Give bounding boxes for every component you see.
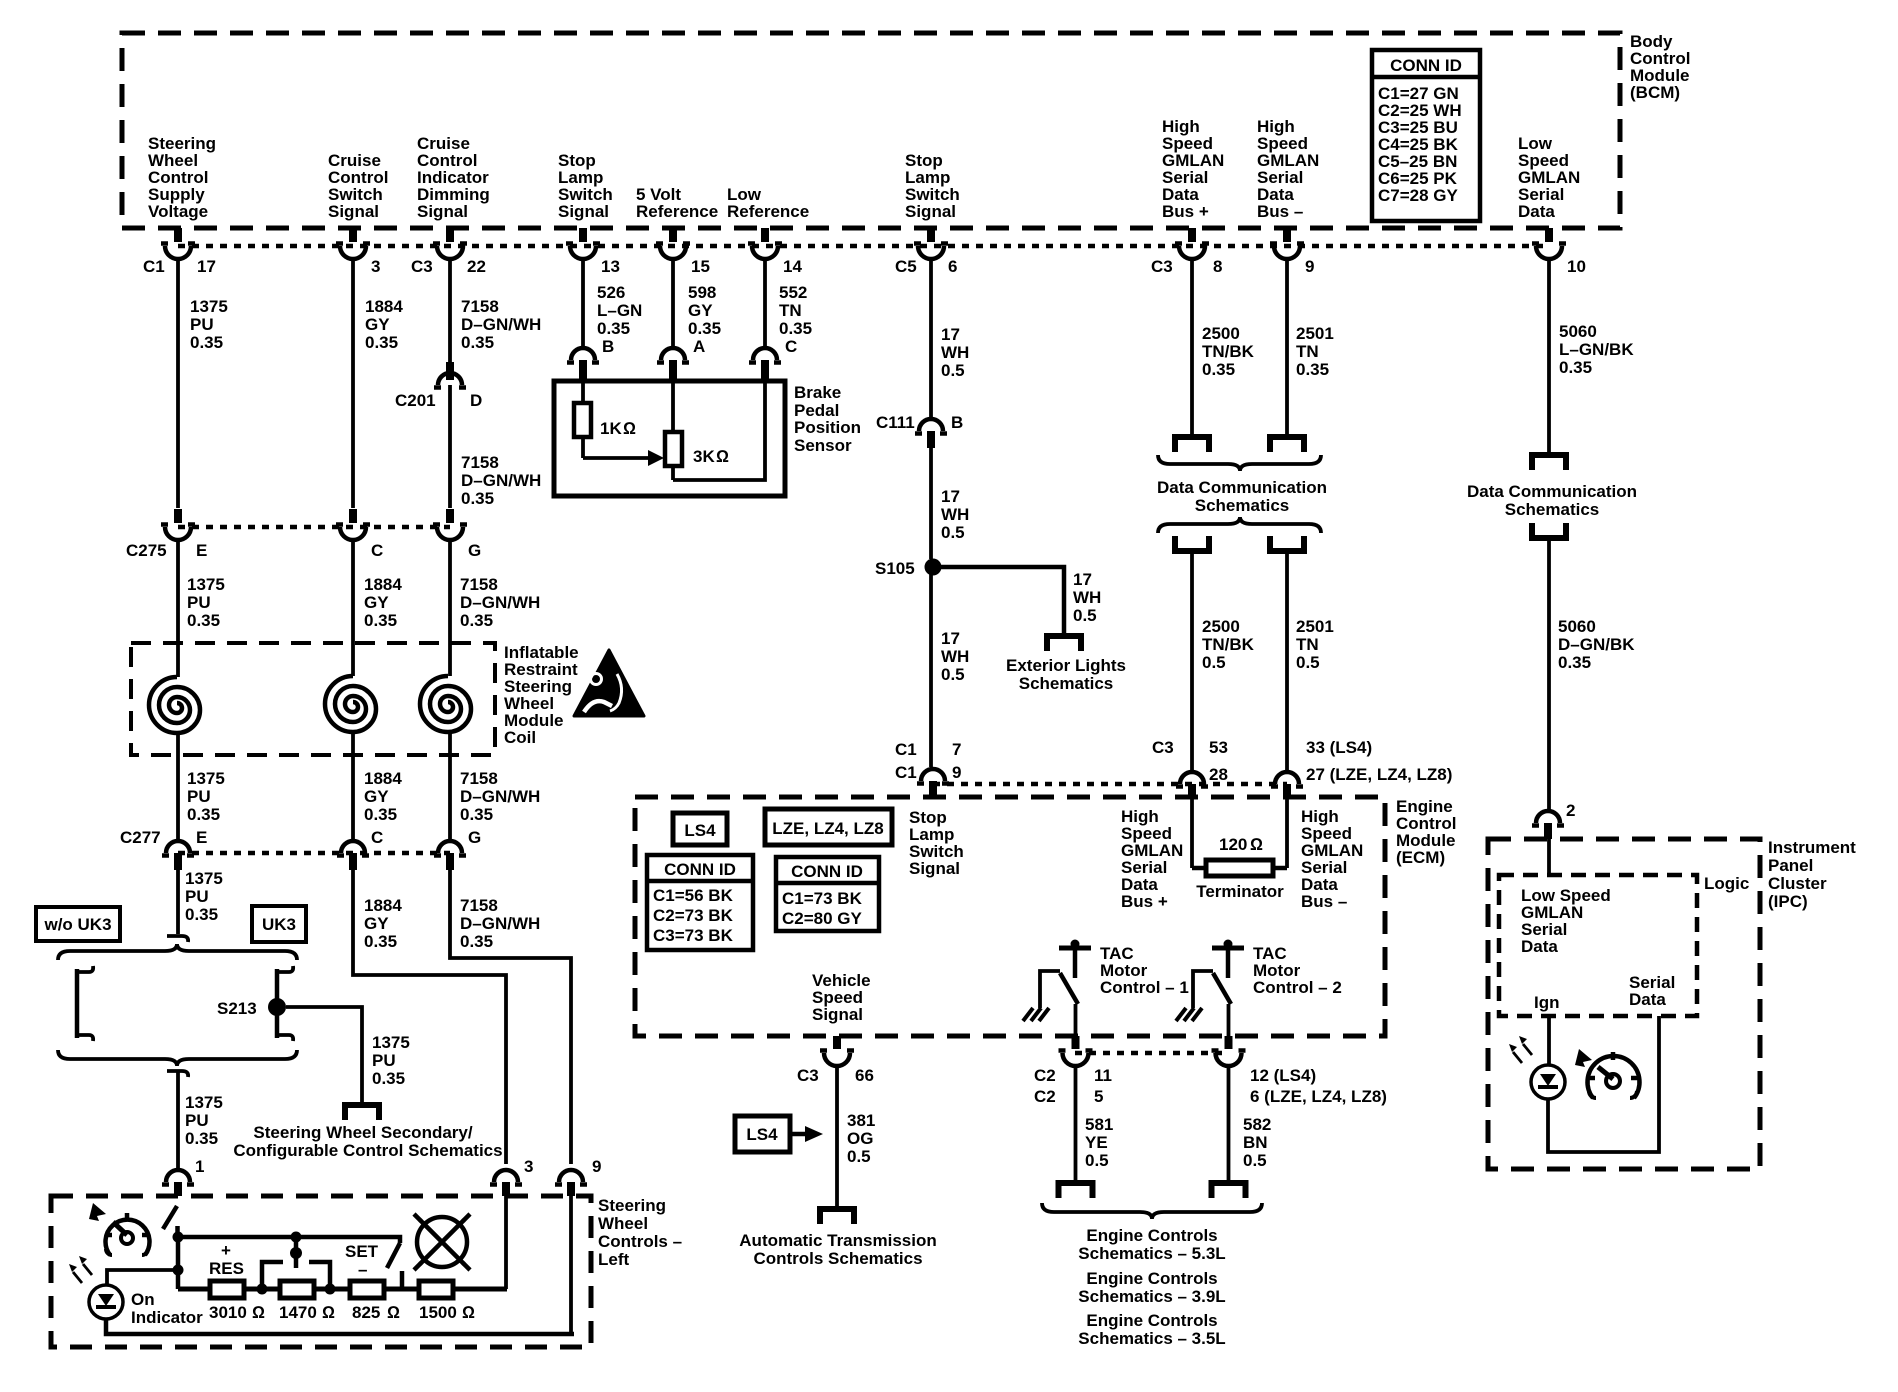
svg-text:Ω: Ω xyxy=(623,419,636,438)
svg-text:Signal: Signal xyxy=(417,202,468,221)
junction dot left of 1470 xyxy=(257,1284,268,1295)
svg-text:7158: 7158 xyxy=(460,896,498,915)
svg-text:D: D xyxy=(470,391,482,410)
C275 pin C xyxy=(336,509,383,560)
svg-text:w/o UK3: w/o UK3 xyxy=(43,915,111,934)
svg-text:9: 9 xyxy=(952,763,961,782)
svg-text:381: 381 xyxy=(847,1111,875,1130)
svg-text:PU: PU xyxy=(190,315,214,334)
connector C201 on wire 7158 xyxy=(395,362,482,410)
svg-text:0.35: 0.35 xyxy=(460,932,493,951)
svg-text:Control – 1: Control – 1 xyxy=(1100,978,1189,997)
svg-text:582: 582 xyxy=(1243,1115,1271,1134)
coil spiral 1 xyxy=(149,677,200,733)
junction dot right of 1470 xyxy=(325,1284,336,1295)
BCM pin label: High Speed GMLAN Serial Data Bus - xyxy=(1257,117,1319,221)
svg-text:C2: C2 xyxy=(1034,1087,1056,1106)
BCM label xyxy=(1630,32,1690,102)
svg-text:C: C xyxy=(785,337,797,356)
resistor 3010 xyxy=(209,1281,265,1322)
junction dot top rail xyxy=(173,1232,184,1243)
Brake Pedal Position Sensor box xyxy=(554,381,861,496)
svg-text:0.35: 0.35 xyxy=(185,905,218,924)
svg-text:C2: C2 xyxy=(1034,1066,1056,1085)
wire 17 WH segment 1 (stop lamp) xyxy=(931,259,969,419)
svg-text:C1=73 BK: C1=73 BK xyxy=(782,889,863,908)
svg-text:Schematics: Schematics xyxy=(1019,674,1114,693)
wire end hook (bottom) xyxy=(167,1071,188,1077)
svg-text:LS4: LS4 xyxy=(746,1125,778,1144)
RES center tap xyxy=(290,1232,302,1269)
svg-text:Bus +: Bus + xyxy=(1121,892,1168,911)
C277 pin G xyxy=(434,828,481,870)
wire 381 OG vehicle speed xyxy=(837,1066,875,1206)
svg-text:9: 9 xyxy=(1305,257,1314,276)
svg-text:BN: BN xyxy=(1243,1133,1268,1152)
svg-text:0.5: 0.5 xyxy=(1296,653,1320,672)
connector C111 xyxy=(876,413,963,448)
Automatic Transmission reference text xyxy=(739,1231,936,1268)
svg-text:D–GN/BK: D–GN/BK xyxy=(1558,635,1635,654)
svg-text:53: 53 xyxy=(1209,738,1228,757)
BCM pin 14 xyxy=(748,228,802,276)
ECM pin C3-53/28 xyxy=(1152,738,1228,797)
svg-text:Data: Data xyxy=(1518,202,1555,221)
wire 1375 PU segment 5 xyxy=(178,1071,223,1168)
svg-text:581: 581 xyxy=(1085,1115,1113,1134)
svg-text:0.35: 0.35 xyxy=(688,319,721,338)
SET switch blade xyxy=(387,1243,400,1268)
svg-text:C3: C3 xyxy=(1151,257,1173,276)
svg-text:0.35: 0.35 xyxy=(1296,360,1329,379)
svg-text:Ω: Ω xyxy=(322,1303,335,1322)
svg-text:Coil: Coil xyxy=(504,728,536,747)
svg-text:0.35: 0.35 xyxy=(365,333,398,352)
LED branch wire xyxy=(107,1270,178,1285)
IPC label: Serial Data xyxy=(1629,973,1675,1009)
SWC pin 9 xyxy=(555,1157,601,1196)
svg-text:1500: 1500 xyxy=(419,1303,457,1322)
svg-text:0.35: 0.35 xyxy=(460,805,493,824)
svg-text:Left: Left xyxy=(598,1250,630,1269)
svg-text:CONN ID: CONN ID xyxy=(1390,56,1462,75)
wire 1884 GY segment 4 routing to pin 3 xyxy=(353,870,506,1164)
junction dot LED branch xyxy=(173,1265,184,1276)
svg-text:YE: YE xyxy=(1085,1133,1108,1152)
svg-text:0.35: 0.35 xyxy=(1558,653,1591,672)
Instrument Panel Cluster box xyxy=(1488,838,1856,1169)
svg-text:Engine Controls: Engine Controls xyxy=(1086,1269,1217,1288)
off-page symbol from data communication (right) xyxy=(1532,523,1566,538)
wire end hook (top) xyxy=(167,936,188,942)
svg-text:D–GN/WH: D–GN/WH xyxy=(461,315,541,334)
wire 1884 GY segment 1 xyxy=(353,259,403,508)
svg-text:Signal: Signal xyxy=(328,202,379,221)
svg-text:UK3: UK3 xyxy=(262,915,296,934)
C277 pin C xyxy=(337,828,383,870)
svg-text:TN/BK: TN/BK xyxy=(1202,635,1255,654)
svg-text:0.5: 0.5 xyxy=(1073,606,1097,625)
svg-text:TN: TN xyxy=(1296,635,1319,654)
wire 1884 GY segment 3 xyxy=(353,732,402,841)
Inflatable Restraint coil box xyxy=(131,643,579,755)
svg-text:GY: GY xyxy=(688,301,713,320)
resistor 3K inside sensor xyxy=(665,381,729,480)
svg-text:Signal: Signal xyxy=(558,202,609,221)
switch blade at pin 1 xyxy=(163,1206,178,1233)
svg-text:D–GN/WH: D–GN/WH xyxy=(460,914,540,933)
BCM pin C1-17 xyxy=(143,228,216,276)
sensor pin C connector xyxy=(749,337,797,381)
BCM pin 13 xyxy=(566,228,620,276)
TAC connector dotted line xyxy=(1075,1051,1228,1056)
CONN ID table (LS4) xyxy=(647,855,753,950)
svg-text:C2=73 BK: C2=73 BK xyxy=(653,906,734,925)
svg-text:GY: GY xyxy=(365,315,390,334)
svg-text:0.35: 0.35 xyxy=(187,805,220,824)
svg-text:17: 17 xyxy=(941,629,960,648)
ECM pin C3-66 (VSS) xyxy=(797,1036,874,1085)
Steering Wheel Secondary reference text xyxy=(233,1123,502,1160)
svg-text:S213: S213 xyxy=(217,999,257,1018)
svg-text:0.35: 0.35 xyxy=(1202,360,1235,379)
off-page symbols engine controls xyxy=(1059,1183,1093,1198)
wire 17 WH segment 3 xyxy=(931,567,969,767)
svg-text:0.35: 0.35 xyxy=(364,805,397,824)
BCM pin label: Low Speed GMLAN Serial Data xyxy=(1518,134,1580,221)
coil spiral 3 xyxy=(420,676,471,732)
BCM pin 9 xyxy=(1270,228,1314,276)
svg-text:Signal: Signal xyxy=(909,859,960,878)
svg-text:0.5: 0.5 xyxy=(941,523,965,542)
svg-text:7158: 7158 xyxy=(460,769,498,788)
Body Control Module (BCM) box xyxy=(122,33,1620,228)
svg-text:Panel: Panel xyxy=(1768,856,1813,875)
wire 2500 TN/BK segment 2 xyxy=(1192,554,1255,771)
svg-text:TN/BK: TN/BK xyxy=(1202,342,1255,361)
svg-text:C: C xyxy=(371,541,383,560)
LS4 tag box xyxy=(673,813,727,845)
resistor 1K inside sensor xyxy=(574,381,636,458)
off-page symbol steering wheel secondary xyxy=(345,1105,379,1120)
svg-text:27 (LZE, LZ4, LZ8): 27 (LZE, LZ4, LZ8) xyxy=(1306,765,1452,784)
svg-text:66: 66 xyxy=(855,1066,874,1085)
BCM pin C3-22 xyxy=(411,228,486,276)
svg-text:0.35: 0.35 xyxy=(372,1069,405,1088)
svg-text:1375: 1375 xyxy=(190,297,228,316)
wire 1375 PU segment 3 xyxy=(178,733,225,841)
svg-text:0.35: 0.35 xyxy=(1559,358,1592,377)
svg-text:Steering: Steering xyxy=(598,1196,666,1215)
svg-text:1884: 1884 xyxy=(365,297,403,316)
coil spiral 2 xyxy=(325,676,376,732)
svg-text:–: – xyxy=(358,1260,367,1279)
svg-text:2501: 2501 xyxy=(1296,324,1334,343)
svg-text:D–GN/WH: D–GN/WH xyxy=(460,787,540,806)
terminator resistor 120 ohm xyxy=(1192,797,1287,901)
svg-text:C: C xyxy=(371,828,383,847)
svg-text:17: 17 xyxy=(941,325,960,344)
svg-text:B: B xyxy=(602,337,614,356)
svg-text:C277: C277 xyxy=(120,828,161,847)
BCM pin label: High Speed GMLAN Serial Data Bus + xyxy=(1162,117,1224,221)
svg-text:PU: PU xyxy=(187,787,211,806)
svg-text:WH: WH xyxy=(941,505,969,524)
wire 2501 TN segment 1 xyxy=(1287,259,1334,434)
wire 2501 TN segment 2 xyxy=(1287,554,1334,771)
svg-text:0.35: 0.35 xyxy=(779,319,812,338)
svg-text:C275: C275 xyxy=(126,541,167,560)
SWC pin 1 xyxy=(162,1157,204,1196)
svg-text:12 (LS4): 12 (LS4) xyxy=(1250,1066,1316,1085)
svg-text:0.35: 0.35 xyxy=(460,611,493,630)
svg-text:1884: 1884 xyxy=(364,769,402,788)
BCM connector dotted line xyxy=(178,244,1549,249)
wiper arrow to 3K xyxy=(583,450,664,466)
connector row C277 dotted line xyxy=(178,851,450,856)
LZE LZ4 LZ8 tag box xyxy=(765,809,892,845)
option over-brace xyxy=(58,944,297,960)
svg-text:2: 2 xyxy=(1566,801,1575,820)
wire 2500 TN/BK segment 1 xyxy=(1192,259,1255,434)
svg-text:C5: C5 xyxy=(895,257,917,276)
svg-text:Indicator: Indicator xyxy=(131,1308,203,1327)
On Indicator LED xyxy=(69,1256,203,1327)
svg-text:L–GN/BK: L–GN/BK xyxy=(1559,340,1634,359)
svg-text:9: 9 xyxy=(592,1157,601,1176)
svg-text:GY: GY xyxy=(364,787,389,806)
svg-text:C201: C201 xyxy=(395,391,436,410)
svg-text:2501: 2501 xyxy=(1296,617,1334,636)
svg-text:1375: 1375 xyxy=(187,575,225,594)
svg-text:D–GN/WH: D–GN/WH xyxy=(461,471,541,490)
BCM pin label: 5 Volt Reference xyxy=(636,185,718,221)
svg-text:0.5: 0.5 xyxy=(1202,653,1226,672)
BCM pin 3 xyxy=(336,228,380,276)
splice S213 xyxy=(217,998,286,1018)
svg-text:2500: 2500 xyxy=(1202,324,1240,343)
svg-text:552: 552 xyxy=(779,283,807,302)
svg-text:1884: 1884 xyxy=(364,575,402,594)
svg-text:Configurable Control Schematic: Configurable Control Schematics xyxy=(233,1141,502,1160)
svg-text:Logic: Logic xyxy=(1704,874,1749,893)
svg-text:1375: 1375 xyxy=(187,769,225,788)
Ign wire xyxy=(1547,1016,1551,1065)
svg-text:Reference: Reference xyxy=(636,202,718,221)
svg-text:G: G xyxy=(468,541,481,560)
svg-text:1: 1 xyxy=(195,1157,204,1176)
svg-text:C1=56 BK: C1=56 BK xyxy=(653,886,734,905)
Exterior Lights Schematics reference xyxy=(1006,656,1126,693)
resistor 1470 xyxy=(279,1281,335,1322)
svg-text:Position: Position xyxy=(794,418,861,437)
svg-text:825: 825 xyxy=(352,1303,380,1322)
svg-text:Ω: Ω xyxy=(252,1303,265,1322)
svg-text:Schematics – 3.9L: Schematics – 3.9L xyxy=(1078,1287,1225,1306)
C275 pin E xyxy=(126,509,207,560)
IPC pin 2 xyxy=(1532,801,1575,839)
svg-text:Bus –: Bus – xyxy=(1301,892,1347,911)
svg-text:10: 10 xyxy=(1567,257,1586,276)
svg-text:E: E xyxy=(196,828,207,847)
svg-text:526: 526 xyxy=(597,283,625,302)
svg-text:(IPC): (IPC) xyxy=(1768,892,1808,911)
svg-text:0.35: 0.35 xyxy=(461,333,494,352)
splice S105 xyxy=(875,559,942,579)
sensor internal wire to pin C xyxy=(673,381,765,480)
svg-text:0.35: 0.35 xyxy=(187,611,220,630)
BCM pin label: Stop Lamp Switch Signal (13) xyxy=(558,151,613,221)
wire 552 TN (pin 14) xyxy=(765,259,812,349)
svg-text:17: 17 xyxy=(1073,570,1092,589)
svg-text:Bus –: Bus – xyxy=(1257,202,1303,221)
wire 17 WH segment 2 xyxy=(931,448,969,559)
pointer arrow to IPC gauge xyxy=(1575,1049,1592,1067)
svg-text:On: On xyxy=(131,1290,155,1309)
wire 1375 PU segment 4 xyxy=(178,869,223,934)
Data Communication Schematics text (right) xyxy=(1467,482,1637,519)
svg-text:C3: C3 xyxy=(1152,738,1174,757)
crossed lamp symbol xyxy=(414,1214,470,1270)
svg-text:33 (LS4): 33 (LS4) xyxy=(1306,738,1372,757)
svg-text:14: 14 xyxy=(783,257,802,276)
svg-text:0.5: 0.5 xyxy=(847,1147,871,1166)
svg-text:CONN ID: CONN ID xyxy=(664,860,736,879)
LED bottom wire xyxy=(106,1319,574,1334)
svg-text:0.35: 0.35 xyxy=(190,333,223,352)
svg-text:CONN ID: CONN ID xyxy=(791,862,863,881)
svg-text:7158: 7158 xyxy=(460,575,498,594)
off-page symbol exterior lights xyxy=(1047,636,1081,651)
CONN ID table (BCM) xyxy=(1372,50,1480,221)
ECM label: High Speed GMLAN Serial Data Bus + xyxy=(1121,807,1183,911)
svg-text:7158: 7158 xyxy=(461,297,499,316)
svg-text:(ECM): (ECM) xyxy=(1396,848,1445,867)
svg-text:PU: PU xyxy=(185,887,209,906)
BCM pin label: Cruise Control Switch Signal xyxy=(328,151,388,221)
svg-text:C2=80 GY: C2=80 GY xyxy=(782,909,863,928)
svg-text:1884: 1884 xyxy=(364,896,402,915)
svg-text:Terminator: Terminator xyxy=(1196,882,1284,901)
svg-text:0.35: 0.35 xyxy=(461,489,494,508)
svg-text:G: G xyxy=(468,828,481,847)
wire 7158 D-GN/WH segment 2 xyxy=(450,385,541,508)
left vertical to resistor rail xyxy=(176,1237,181,1289)
svg-text:Ign: Ign xyxy=(1534,993,1560,1012)
svg-text:Voltage: Voltage xyxy=(148,202,208,221)
svg-text:Controls –: Controls – xyxy=(598,1232,682,1251)
svg-text:3: 3 xyxy=(524,1157,533,1176)
SET contact tick xyxy=(400,1271,405,1288)
pin 3 wire inside box xyxy=(504,1196,508,1289)
svg-text:Data Communication: Data Communication xyxy=(1467,482,1637,501)
svg-text:Signal: Signal xyxy=(812,1005,863,1024)
1470 bypass hooks xyxy=(262,1262,330,1289)
svg-text:S105: S105 xyxy=(875,559,915,578)
SET label xyxy=(345,1242,379,1279)
svg-text:8: 8 xyxy=(1213,257,1222,276)
svg-text:GY: GY xyxy=(364,593,389,612)
svg-text:C7=28 GY: C7=28 GY xyxy=(1378,186,1459,205)
svg-text:Schematics: Schematics xyxy=(1195,496,1290,515)
ECM label: High Speed GMLAN Serial Data Bus - xyxy=(1301,807,1363,911)
svg-text:Schematics – 5.3L: Schematics – 5.3L xyxy=(1078,1244,1225,1263)
branch wire 1375 PU to secondary controls xyxy=(286,1007,410,1102)
Data Communication Schematics text (left) xyxy=(1157,478,1327,515)
wire 581 YE xyxy=(1076,1066,1114,1180)
wire 7158 segment 5 routing to pin 9 xyxy=(450,870,571,1164)
svg-text:GY: GY xyxy=(364,914,389,933)
svg-text:C111: C111 xyxy=(876,413,915,432)
svg-text:120: 120 xyxy=(1219,835,1247,854)
ECM connector dotted line xyxy=(933,782,1287,787)
svg-text:6: 6 xyxy=(948,257,957,276)
off-page symbol to data communication (right) xyxy=(1532,455,1566,470)
BCM pin C5-6 xyxy=(895,228,957,276)
svg-text:Ω: Ω xyxy=(462,1303,475,1322)
sensor pin A connector xyxy=(657,337,705,381)
IPC logic box xyxy=(1499,874,1749,1016)
BCM pin label: Cruise Control Indicator Dimming Signal xyxy=(417,134,490,221)
option bar right (UK3 path) xyxy=(277,966,293,1041)
cruise gauge icon xyxy=(105,1213,150,1255)
wire 598 GY (pin 15) xyxy=(673,259,721,349)
resistor 825 xyxy=(350,1281,400,1322)
IPC label: Low Speed GMLAN Serial Data xyxy=(1521,886,1611,956)
wire 7158 segment 3 xyxy=(450,540,540,676)
svg-text:Engine Controls: Engine Controls xyxy=(1086,1226,1217,1245)
wire 7158 D-GN/WH segment 1 xyxy=(450,259,541,362)
svg-text:1375: 1375 xyxy=(372,1033,410,1052)
svg-text:6 (LZE, LZ4, LZ8): 6 (LZE, LZ4, LZ8) xyxy=(1250,1087,1387,1106)
engine controls under-brace xyxy=(1042,1203,1262,1219)
LS4 tag with arrow xyxy=(735,1116,823,1152)
svg-text:Data: Data xyxy=(1521,937,1558,956)
svg-text:5060: 5060 xyxy=(1559,322,1597,341)
svg-text:22: 22 xyxy=(467,257,486,276)
svg-text:0.35: 0.35 xyxy=(364,611,397,630)
off-page symbols from data communication (bottom pair) xyxy=(1175,536,1209,551)
svg-text:3K: 3K xyxy=(693,447,715,466)
wire 582 BN xyxy=(1229,1066,1272,1180)
svg-text:PU: PU xyxy=(185,1111,209,1130)
svg-text:Controls Schematics: Controls Schematics xyxy=(753,1249,922,1268)
svg-text:15: 15 xyxy=(691,257,710,276)
svg-text:0.5: 0.5 xyxy=(1243,1151,1267,1170)
IPC gauge icon xyxy=(1587,1052,1640,1098)
ECM pin 33/27 xyxy=(1271,738,1452,797)
top rail wire xyxy=(178,1237,400,1243)
svg-text:0.5: 0.5 xyxy=(941,361,965,380)
svg-text:A: A xyxy=(693,337,705,356)
wire 5060 D-GN/BK xyxy=(1549,541,1635,811)
svg-text:RES: RES xyxy=(209,1259,244,1278)
BCM pin C3-8 xyxy=(1151,228,1222,276)
wire 1884 GY segment 2 xyxy=(353,540,402,676)
svg-text:TN: TN xyxy=(1296,342,1319,361)
ECM pin 12/6 (TAC2) xyxy=(1212,1036,1387,1106)
svg-text:E: E xyxy=(196,541,207,560)
svg-text:WH: WH xyxy=(941,343,969,362)
svg-text:OG: OG xyxy=(847,1129,873,1148)
svg-text:D–GN/WH: D–GN/WH xyxy=(460,593,540,612)
wire 5060 L-GN/BK xyxy=(1549,259,1634,452)
svg-text:Ω: Ω xyxy=(1250,835,1263,854)
svg-text:Schematics – 3.5L: Schematics – 3.5L xyxy=(1078,1329,1225,1348)
svg-text:C1: C1 xyxy=(895,763,917,782)
svg-text:28: 28 xyxy=(1209,765,1228,784)
svg-text:17: 17 xyxy=(197,257,216,276)
